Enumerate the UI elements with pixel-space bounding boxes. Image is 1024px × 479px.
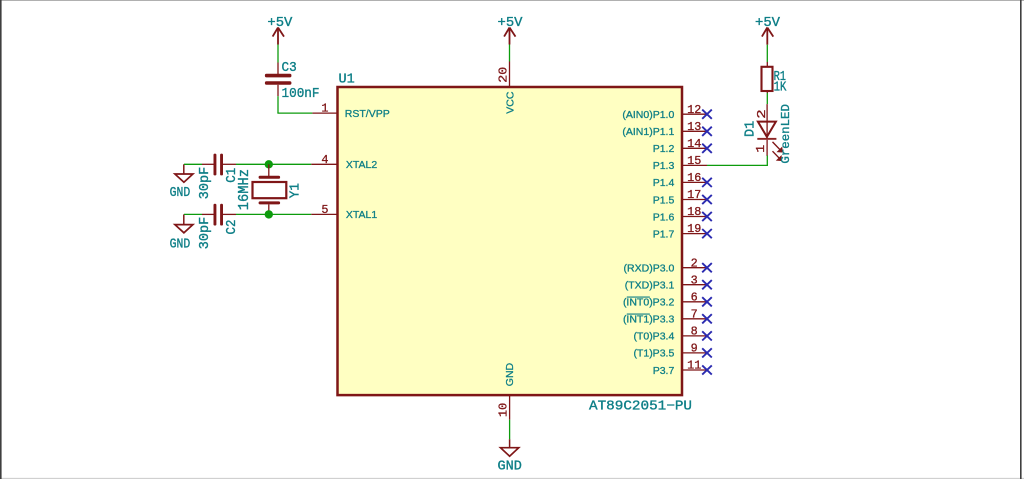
IC U1 AT89C2051 body	[338, 73, 693, 415]
svg-text:AT89C2051−PU: AT89C2051−PU	[589, 399, 692, 414]
no-connect pin 8	[702, 331, 712, 340]
U1 pin 10 GND	[496, 362, 516, 419]
U1 pin 2 (RXD)P3.0	[624, 256, 707, 274]
D1 pin 1 lead	[766, 140, 768, 156]
svg-text:+5V: +5V	[267, 16, 293, 31]
D1 emission arrows	[773, 142, 783, 160]
svg-text:XTAL2: XTAL2	[346, 159, 377, 171]
svg-text:GND: GND	[170, 237, 191, 252]
U1 pin 17 P1.5	[653, 188, 707, 206]
svg-text:(INT1)P3.3: (INT1)P3.3	[623, 314, 675, 326]
no-connect pin 2	[702, 263, 712, 272]
svg-text:5: 5	[321, 203, 328, 217]
no-connect pin 12	[702, 110, 712, 119]
wire D1 to pin 15	[707, 156, 768, 166]
svg-text:P1.3: P1.3	[653, 160, 675, 172]
U1 pin 20 VCC	[497, 62, 517, 114]
ground GND (bottom left, C2)	[170, 214, 193, 252]
svg-text:17: 17	[687, 188, 701, 202]
junction (XTAL1 node)	[265, 210, 273, 218]
LED D1	[744, 104, 793, 164]
svg-text:1K: 1K	[774, 81, 788, 96]
wire GND to C2	[184, 213, 202, 215]
ground GND (top left, C1)	[170, 164, 193, 201]
svg-text:(T1)P3.5: (T1)P3.5	[633, 348, 674, 360]
svg-text:2: 2	[691, 256, 698, 270]
U1 pin 12 (AIN0)P1.0	[622, 103, 707, 121]
svg-text:4: 4	[321, 153, 328, 167]
svg-text:P3.7: P3.7	[653, 365, 675, 377]
wire C2 to XTAL1	[236, 213, 311, 215]
svg-text:13: 13	[687, 120, 701, 134]
svg-text:(T0)P3.4: (T0)P3.4	[633, 331, 674, 343]
crystal Y1	[237, 164, 303, 214]
capacitor C3	[265, 61, 320, 102]
no-connect pin 16	[702, 178, 712, 187]
capacitor C1	[198, 154, 240, 200]
no-connect pin 9	[702, 348, 712, 357]
resistor R1	[762, 62, 788, 96]
U1 pin 1 RST/VPP	[312, 102, 389, 120]
svg-text:XTAL1: XTAL1	[346, 209, 377, 221]
wire C3 to pin 1	[277, 96, 312, 113]
svg-text:P1.4: P1.4	[653, 177, 675, 189]
no-connect pin 6	[702, 297, 712, 306]
no-connect pin 7	[702, 314, 712, 323]
svg-text:GND: GND	[498, 460, 522, 475]
svg-text:(INT0)P3.2: (INT0)P3.2	[623, 297, 675, 309]
svg-text:3: 3	[691, 273, 698, 287]
wire +5V to C3	[277, 45, 279, 63]
D1 pin 2 lead	[766, 104, 768, 139]
wire +5V to VCC pin	[509, 45, 511, 62]
U1 pin 19 P1.7	[653, 222, 707, 240]
U1 pin 6 (INT0)P3.2	[623, 290, 707, 308]
svg-text:18: 18	[687, 205, 701, 219]
ground GND (bottom)	[498, 439, 522, 474]
svg-text:14: 14	[687, 137, 701, 151]
U1 pin 5 XTAL1	[311, 203, 377, 221]
power +5V (right, net of R1)	[755, 16, 781, 45]
no-connect pin 11	[702, 365, 712, 374]
U1 pin 9 (T1)P3.5	[633, 342, 707, 360]
svg-text:9: 9	[691, 342, 698, 356]
svg-text:Y1: Y1	[289, 183, 304, 198]
svg-text:P1.6: P1.6	[653, 211, 675, 223]
svg-text:16: 16	[687, 171, 701, 185]
svg-text:20: 20	[497, 67, 511, 83]
wire pin 10 to GND	[509, 420, 511, 440]
U1 pin 18 P1.6	[653, 205, 707, 223]
svg-text:(TXD)P3.1: (TXD)P3.1	[625, 280, 675, 292]
svg-text:P1.7: P1.7	[653, 228, 675, 240]
svg-text:GreenLED: GreenLED	[779, 104, 793, 164]
svg-text:C3: C3	[282, 61, 297, 76]
power +5V (left, net of C3)	[267, 16, 293, 45]
no-connect pin 17	[702, 195, 712, 204]
svg-text:1: 1	[321, 102, 328, 116]
svg-text:GND: GND	[504, 362, 516, 386]
svg-text:2: 2	[755, 109, 769, 119]
wire R1 to D1	[766, 93, 768, 104]
D1 triangle	[758, 122, 776, 137]
svg-text:19: 19	[687, 222, 701, 236]
no-connect pin 13	[702, 127, 712, 136]
svg-text:(AIN1)P1.1: (AIN1)P1.1	[622, 126, 674, 138]
svg-text:D1: D1	[744, 121, 759, 137]
junction (XTAL2 node)	[265, 160, 273, 168]
U1 pin 3 (TXD)P3.1	[625, 273, 707, 291]
wire GND to C1	[184, 163, 202, 165]
U1 pin 16 P1.4	[653, 171, 707, 189]
svg-text:12: 12	[687, 103, 701, 117]
U1 pin 4 XTAL2	[311, 153, 377, 171]
svg-text:100nF: 100nF	[282, 87, 320, 102]
U1 pin 8 (T0)P3.4	[633, 325, 707, 343]
svg-text:P1.5: P1.5	[653, 194, 675, 206]
svg-text:(RXD)P3.0: (RXD)P3.0	[624, 263, 675, 275]
no-connect pin 14	[702, 144, 712, 153]
svg-text:C2: C2	[225, 220, 240, 235]
no-connect pin 18	[702, 212, 712, 221]
svg-text:P1.2: P1.2	[653, 143, 675, 155]
svg-text:U1: U1	[339, 73, 355, 88]
svg-text:(AIN0)P1.0: (AIN0)P1.0	[622, 109, 674, 121]
svg-text:6: 6	[691, 290, 698, 304]
svg-text:1: 1	[754, 145, 768, 153]
U1 pin 14 P1.2	[653, 137, 707, 155]
svg-text:30pF: 30pF	[198, 217, 213, 249]
svg-text:8: 8	[691, 325, 698, 339]
power +5V (middle, VCC)	[498, 16, 524, 45]
wire C1 to XTAL2	[236, 163, 311, 165]
U1 pin 15 P1.3	[653, 154, 707, 172]
svg-text:GND: GND	[170, 186, 191, 201]
D1 cathode bar	[757, 138, 776, 140]
U1 pin 13 (AIN1)P1.1	[622, 120, 707, 138]
U1 pin 7 (INT1)P3.3	[623, 307, 707, 325]
no-connect pin 3	[702, 280, 712, 289]
U1 pin 11 P3.7	[653, 359, 707, 377]
svg-text:11: 11	[687, 359, 701, 373]
svg-text:16MHz: 16MHz	[237, 169, 253, 210]
svg-text:VCC: VCC	[504, 91, 516, 114]
svg-text:7: 7	[691, 307, 698, 321]
svg-text:RST/VPP: RST/VPP	[345, 108, 390, 120]
capacitor C2	[198, 204, 240, 250]
no-connect pin 19	[702, 229, 712, 238]
svg-text:10: 10	[496, 403, 510, 417]
wire +5V to R1	[766, 45, 768, 62]
svg-text:15: 15	[687, 154, 701, 168]
svg-text:30pF: 30pF	[198, 167, 213, 199]
